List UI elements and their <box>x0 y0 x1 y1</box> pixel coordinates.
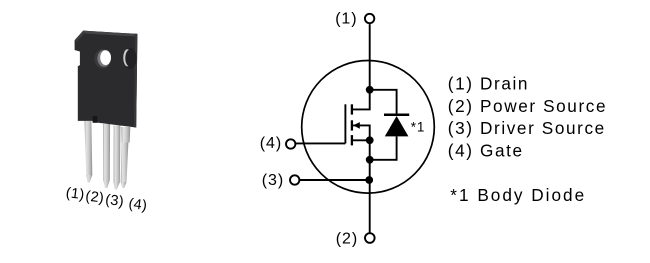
package TO-247: lead 1 <box>84 121 92 183</box>
body diode cathode bar <box>384 114 409 117</box>
node: source junction dot <box>366 136 374 144</box>
package body: bottom notch shadow <box>93 116 98 123</box>
wire: drain node down to MOSFET drain lead <box>352 90 370 110</box>
svg-text:(2) Power Source: (2) Power Source <box>448 96 607 116</box>
svg-text:(4) Gate: (4) Gate <box>448 141 524 161</box>
wire: body to source node <box>353 125 370 140</box>
body diode triangle (anode) <box>385 116 409 136</box>
wire: gate lead from terminal (4) <box>295 142 345 144</box>
wire: down to driver-source node <box>369 160 371 180</box>
pin list text <box>448 74 607 205</box>
svg-text:(4): (4) <box>128 196 148 214</box>
MOSFET channel segment (drain) <box>351 104 353 114</box>
MOSFET gate plate <box>344 104 346 143</box>
package body: mounting hole <box>94 49 111 69</box>
wire: drain terminal to drain node <box>369 24 371 90</box>
svg-text:(4): (4) <box>260 135 282 152</box>
wire: source node to diode return node <box>369 140 371 160</box>
wire: drain node to diode cathode <box>370 90 397 115</box>
package body: right recess with crescent highlight <box>123 48 137 70</box>
transistor envelope circle <box>302 61 435 194</box>
svg-text:(3): (3) <box>262 172 284 189</box>
terminal (1) Drain: open circle <box>365 14 374 23</box>
svg-text:(2): (2) <box>336 231 358 248</box>
svg-text:(2): (2) <box>85 188 105 206</box>
wire: terminal (3) to driver-source node <box>300 179 370 181</box>
svg-text:*1 Body Diode: *1 Body Diode <box>450 185 586 205</box>
MOSFET body arrow (points to channel) <box>353 122 360 129</box>
node: diode anode junction dot <box>366 156 374 164</box>
wire: down to terminal (2) <box>369 180 371 233</box>
package TO-247: lead 3 <box>114 126 121 190</box>
package body: top bevel highlight <box>83 31 137 37</box>
package body: right edge facet <box>134 34 138 128</box>
package TO-247: lead 2 <box>103 124 110 188</box>
svg-text:(1): (1) <box>65 185 85 203</box>
package TO-247: molded body <box>75 31 138 128</box>
svg-text:(1) Drain: (1) Drain <box>448 74 529 94</box>
package TO-247: lead 4 <box>121 127 131 188</box>
terminal (2) Power Source: open circle <box>365 233 375 243</box>
node: drain junction dot <box>366 86 374 94</box>
MOSFET channel segment (source) <box>351 135 353 145</box>
svg-text:(3): (3) <box>104 192 124 210</box>
node: driver source junction dot <box>365 176 373 184</box>
wire: MOSFET source lead <box>352 139 370 141</box>
svg-text:(3) Driver Source: (3) Driver Source <box>448 118 606 138</box>
svg-text:*1: *1 <box>411 119 425 134</box>
wire: diode anode to source rail <box>370 136 397 159</box>
terminal (3) Driver Source: open circle <box>290 175 299 184</box>
terminal (4) Gate: open circle <box>286 139 295 148</box>
package body: chamfer facet <box>75 31 85 42</box>
MOSFET channel segment (body) <box>351 120 353 130</box>
svg-text:(1): (1) <box>335 10 357 27</box>
